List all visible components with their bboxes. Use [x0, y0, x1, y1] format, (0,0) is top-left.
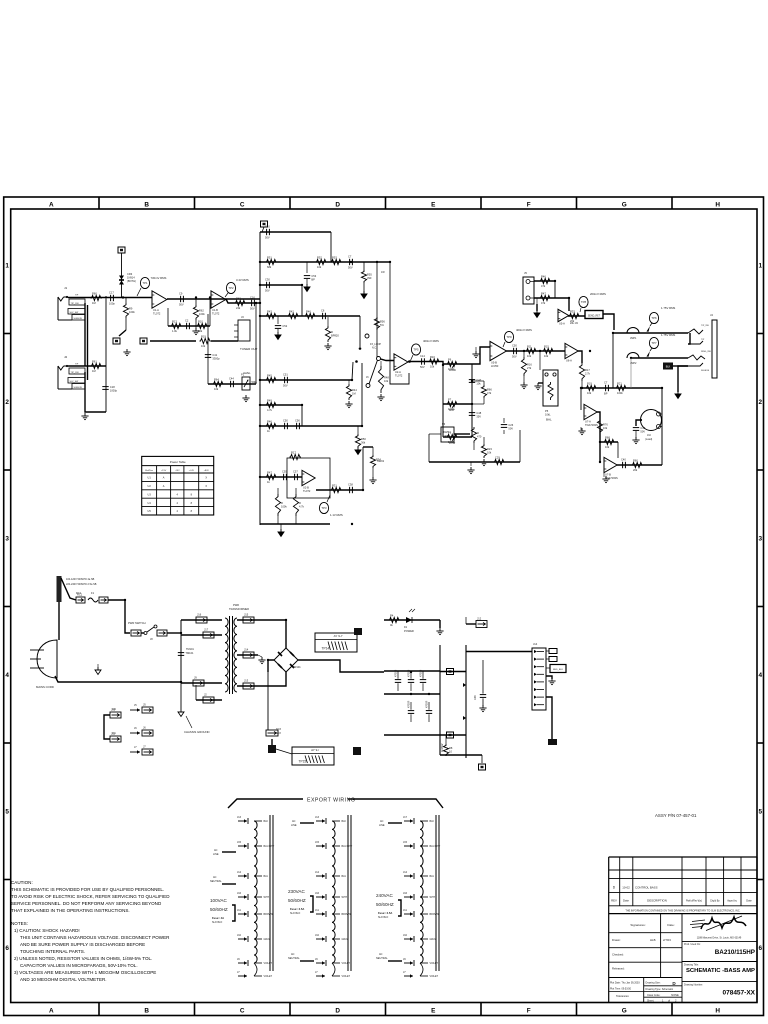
svg-text:J6: J6	[143, 726, 146, 730]
svg-text:U6: U6	[442, 423, 446, 426]
svg-text:J11: J11	[403, 909, 407, 912]
svg-text:VIOLET: VIOLET	[430, 962, 439, 965]
svg-text:J2: J2	[64, 355, 68, 359]
svg-text:CONTROL BASS: CONTROL BASS	[635, 885, 658, 889]
svg-text:VIOLET: VIOLET	[264, 975, 273, 978]
svg-text:TM101: TM101	[185, 651, 194, 655]
svg-text:1000p: 1000p	[110, 388, 118, 392]
svg-text:TP3: TP3	[321, 506, 327, 510]
svg-text:J10: J10	[647, 434, 652, 437]
svg-text:A: A	[49, 202, 54, 209]
svg-text:LINE: LINE	[213, 853, 219, 856]
svg-text:4: 4	[759, 672, 763, 679]
svg-text:R44: R44	[352, 388, 357, 392]
svg-text:LF353: LF353	[491, 364, 499, 368]
svg-text:J11: J11	[315, 909, 319, 912]
svg-text:THIS UNIT CONTAINS HAZARDOUS V: THIS UNIT CONTAINS HAZARDOUS VOLTAGE. DI…	[20, 935, 170, 940]
svg-text:4N25: 4N25	[443, 431, 449, 434]
svg-text:R62: R62	[236, 296, 241, 300]
svg-text:AC: AC	[379, 953, 383, 956]
svg-text:J7: J7	[134, 746, 137, 749]
svg-text:SEND_RET: SEND_RET	[588, 315, 601, 317]
svg-text:4: 4	[177, 510, 179, 513]
svg-text:J9: J9	[403, 958, 406, 961]
svg-text:J14: J14	[237, 871, 242, 874]
svg-text:R9: R9	[129, 307, 133, 311]
svg-text:100k: 100k	[199, 312, 205, 316]
svg-text:P7: P7	[448, 397, 452, 401]
svg-text:J7: J7	[403, 971, 406, 974]
svg-text:E: E	[431, 202, 436, 209]
svg-text:G: G	[622, 1008, 627, 1015]
svg-text:10: 10	[449, 750, 452, 754]
svg-text:50V: 50V	[283, 384, 288, 388]
svg-text:R10: R10	[198, 319, 203, 323]
svg-text:Chg'd By: Chg'd By	[710, 900, 720, 903]
svg-text:50/60HZ: 50/60HZ	[288, 898, 306, 903]
svg-text:VIOLET: VIOLET	[342, 975, 351, 978]
svg-text:H: H	[715, 1008, 720, 1015]
svg-text:C30: C30	[265, 277, 270, 281]
svg-text:1: 1	[759, 262, 763, 269]
svg-text:E: E	[431, 1008, 436, 1015]
svg-text:PWR: PWR	[233, 603, 239, 607]
svg-text:J10: J10	[403, 934, 408, 937]
svg-text:R45: R45	[267, 373, 272, 377]
svg-text:1) CAUTION: SHOCK HAZARD!: 1) CAUTION: SHOCK HAZARD!	[14, 928, 80, 933]
svg-text:POWER: POWER	[404, 629, 414, 633]
svg-text:J15: J15	[237, 841, 242, 844]
svg-text:X: X	[205, 477, 207, 480]
svg-text:10k: 10k	[476, 381, 481, 385]
svg-text:BLK: BLK	[666, 366, 671, 369]
svg-text:LINE: LINE	[379, 824, 385, 827]
svg-text:Class Code:: Class Code:	[647, 994, 661, 997]
svg-text:A: A	[163, 477, 165, 480]
svg-text:50V: 50V	[179, 303, 184, 307]
svg-text:TOUCHING INTERNAL PARTS.: TOUCHING INTERNAL PARTS.	[20, 949, 85, 954]
svg-text:TIP_SW: TIP_SW	[71, 303, 80, 305]
svg-text:4.7k: 4.7k	[299, 505, 305, 509]
svg-text:3) VOLTAGES ARE MEASURED WITH: 3) VOLTAGES ARE MEASURED WITH 1 MEGOHM O…	[14, 970, 156, 975]
svg-text:-15V: -15V	[175, 470, 180, 472]
svg-text:J17: J17	[204, 628, 209, 632]
svg-text:F: F	[527, 202, 531, 209]
svg-text:CHASSIS GROUND: CHASSIS GROUND	[184, 730, 210, 734]
svg-text:470: 470	[477, 435, 482, 439]
svg-text:10R5W: 10R5W	[441, 743, 444, 752]
svg-text:R19: R19	[587, 381, 592, 385]
svg-text:4: 4	[5, 672, 9, 679]
svg-text:5: 5	[759, 808, 763, 815]
svg-text:C53: C53	[311, 274, 316, 278]
svg-text:R15: R15	[544, 344, 549, 348]
svg-text:C50: C50	[512, 343, 517, 347]
svg-text:Power Table: Power Table	[170, 460, 186, 464]
svg-text:6: 6	[5, 945, 9, 952]
svg-text:TP2: TP2	[228, 286, 234, 290]
svg-text:J7: J7	[315, 971, 318, 974]
svg-text:C10: C10	[265, 224, 270, 228]
svg-text:50V: 50V	[250, 307, 255, 311]
svg-text:C17: C17	[109, 290, 114, 294]
svg-text:D: D	[613, 886, 616, 890]
svg-text:NOTES:: NOTES:	[11, 921, 28, 926]
svg-text:R17: R17	[585, 368, 590, 372]
svg-text:NEUTRAL: NEUTRAL	[376, 957, 388, 960]
svg-text:C18: C18	[110, 385, 115, 389]
svg-text:TM101: TM101	[186, 648, 194, 651]
svg-text:U1: U1	[148, 477, 152, 480]
svg-text:RED_BLK: RED_BLK	[553, 669, 564, 671]
svg-text:C46: C46	[474, 695, 477, 700]
svg-text:Drawing Type: Schematic: Drawing Type: Schematic	[646, 988, 674, 991]
svg-text:3300p: 3300p	[212, 356, 220, 360]
svg-text:1.75V RMS: 1.75V RMS	[661, 333, 675, 337]
svg-text:Drawn:: Drawn:	[612, 938, 621, 942]
svg-text:J6: J6	[366, 376, 369, 379]
svg-text:HIGH: HIGH	[449, 368, 456, 372]
svg-text:CR3: CR3	[127, 272, 133, 276]
svg-text:10kL: 10kL	[545, 412, 551, 416]
svg-text:C30: C30	[640, 426, 645, 430]
svg-text:SLEEVE: SLEEVE	[701, 370, 710, 372]
svg-text:J14: J14	[244, 648, 249, 652]
svg-text:J11: J11	[112, 732, 116, 735]
svg-text:A: A	[163, 485, 165, 488]
svg-text:+/-4V: +/-4V	[189, 470, 195, 472]
svg-text:J5: J5	[524, 271, 527, 275]
svg-text:VIOLET: VIOLET	[264, 962, 273, 965]
svg-text:5: 5	[5, 808, 9, 815]
svg-text:BP820: BP820	[331, 334, 339, 338]
svg-text:50V: 50V	[420, 365, 425, 369]
svg-text:50kL: 50kL	[252, 380, 258, 384]
svg-text:TRANSFORMER: TRANSFORMER	[229, 607, 249, 611]
svg-text:THE INFORMATION CONTAINED ON T: THE INFORMATION CONTAINED ON THIS DRAWIN…	[625, 910, 740, 913]
svg-text:J11: J11	[237, 909, 241, 912]
svg-text:SLV_SW: SLV_SW	[70, 381, 80, 383]
svg-text:R: R	[299, 501, 301, 505]
svg-text:C44: C44	[229, 376, 234, 380]
svg-text:SLO BLO: SLO BLO	[290, 912, 300, 915]
svg-text:Checked:: Checked:	[612, 953, 624, 957]
svg-text:J14: J14	[315, 871, 320, 874]
svg-text:240VAC: 240VAC	[376, 893, 393, 898]
svg-text:R: R	[331, 330, 333, 334]
svg-text:C: C	[240, 202, 245, 209]
svg-text:R43: R43	[267, 309, 272, 313]
svg-text:C55: C55	[282, 469, 287, 473]
svg-text:47k: 47k	[487, 391, 492, 395]
svg-text:AND BE SURE POWER SUPPLY IS DI: AND BE SURE POWER SUPPLY IS DISCHARGED B…	[20, 942, 145, 947]
svg-text:SCHEMATIC -BASS AMP: SCHEMATIC -BASS AMP	[686, 968, 755, 974]
svg-text:10k: 10k	[605, 445, 610, 449]
svg-text:F1: F1	[91, 591, 95, 595]
svg-text:2: 2	[5, 399, 9, 406]
svg-text:R17: R17	[291, 450, 296, 454]
svg-text:6: 6	[759, 945, 763, 952]
svg-text:100k: 100k	[129, 310, 135, 314]
svg-text:R60: R60	[633, 458, 638, 462]
svg-text:R53: R53	[332, 255, 337, 259]
svg-text:TL072: TL072	[153, 311, 161, 315]
svg-text:27k: 27k	[527, 366, 532, 370]
svg-text:1M: 1M	[92, 369, 96, 373]
svg-text:1k: 1k	[267, 480, 270, 484]
svg-text:3.4V RMS: 3.4V RMS	[236, 278, 249, 282]
svg-text:J16: J16	[197, 613, 202, 617]
svg-text:Signatures:: Signatures:	[630, 923, 645, 927]
svg-text:AY 9-7: AY 9-7	[334, 634, 343, 638]
svg-text:R51: R51	[267, 255, 272, 259]
svg-text:NEUTRAL: NEUTRAL	[288, 957, 300, 960]
svg-text:J5: J5	[134, 704, 137, 707]
svg-text:J2: J2	[204, 693, 207, 697]
svg-text:R23: R23	[487, 447, 492, 451]
svg-text:2: 2	[759, 399, 763, 406]
svg-text:NONE: NONE	[671, 993, 679, 997]
svg-text:10k: 10k	[201, 344, 206, 348]
svg-text:R47: R47	[267, 470, 272, 474]
svg-text:J14: J14	[403, 871, 408, 874]
svg-text:C52: C52	[282, 324, 287, 328]
svg-text:R46: R46	[267, 419, 272, 423]
svg-text:Date: Date	[746, 899, 752, 903]
svg-text:U5: U5	[148, 510, 152, 513]
svg-text:Drawing Size:: Drawing Size:	[646, 982, 661, 985]
svg-text:200mV RMS: 200mV RMS	[590, 292, 606, 296]
svg-text:AC: AC	[291, 953, 295, 956]
svg-text:JMP1: JMP1	[630, 337, 637, 340]
svg-text:BP: BP	[604, 392, 608, 396]
svg-text:C7: C7	[604, 380, 608, 384]
svg-text:1M: 1M	[92, 301, 96, 305]
svg-text:ACX: ACX	[276, 732, 281, 735]
svg-text:AC: AC	[213, 876, 217, 879]
svg-text:WHT: WHT	[264, 896, 270, 899]
svg-text:R19: R19	[201, 334, 206, 338]
svg-text:(Load): (Load)	[645, 438, 652, 441]
svg-text:G: G	[622, 202, 627, 209]
svg-text:WHT: WHT	[342, 896, 348, 899]
svg-text:Sheet:: Sheet:	[647, 999, 654, 1002]
svg-text:J7: J7	[237, 971, 240, 974]
svg-text:RC1: RC1	[76, 591, 82, 595]
svg-text:1.0k: 1.0k	[172, 329, 178, 333]
svg-text:BLU: BLU	[430, 875, 435, 878]
svg-text:R46: R46	[541, 274, 546, 278]
svg-text:C6: C6	[321, 308, 325, 312]
svg-text:BLU: BLU	[342, 875, 347, 878]
svg-text:D1: D1	[404, 626, 408, 629]
svg-text:U3: U3	[148, 493, 152, 496]
svg-text:TP9: TP9	[506, 335, 512, 339]
svg-text:(BOTH): (BOTH)	[127, 279, 136, 283]
svg-text:U2: U2	[148, 485, 152, 488]
svg-text:Prod. Used On:: Prod. Used On:	[684, 943, 701, 946]
svg-text:MAINS CORD: MAINS CORD	[36, 685, 54, 689]
svg-text:4700R: 4700R	[420, 669, 423, 677]
svg-text:J17: J17	[403, 816, 408, 819]
svg-text:D: D	[672, 981, 676, 986]
svg-text:R55: R55	[367, 273, 372, 277]
svg-text:100-120V 50/60Hz 4a SB: 100-120V 50/60Hz 4a SB	[66, 578, 95, 581]
svg-text:35V: 35V	[476, 414, 481, 418]
svg-text:R76: R76	[603, 423, 608, 427]
svg-text:C29: C29	[495, 455, 500, 459]
svg-text:J1: J1	[64, 286, 68, 290]
svg-text:400mV RMS: 400mV RMS	[516, 328, 532, 332]
svg-text:4k: 4k	[390, 623, 393, 627]
svg-text:TL072: TL072	[395, 373, 403, 377]
svg-text:C9: C9	[179, 291, 183, 295]
svg-text:THIS SCHEMATIC IS PROVIDED FOR: THIS SCHEMATIC IS PROVIDED FOR USE BY QU…	[11, 887, 164, 892]
svg-text:LEVEL: LEVEL	[243, 372, 251, 375]
svg-text:HLB: HLB	[650, 938, 656, 942]
svg-text:50V: 50V	[265, 236, 270, 240]
svg-text:X: X	[205, 485, 207, 488]
svg-text:VIOLET: VIOLET	[342, 962, 351, 965]
svg-text:47k: 47k	[541, 284, 546, 288]
svg-text:5%: 5%	[380, 323, 384, 327]
svg-text:AC: AC	[214, 849, 218, 852]
svg-text:J10: J10	[112, 708, 117, 711]
svg-text:50V: 50V	[640, 429, 645, 433]
svg-text:8: 8	[191, 510, 193, 513]
svg-text:10k: 10k	[198, 329, 203, 333]
svg-text:50/60HZ: 50/60HZ	[210, 907, 228, 912]
svg-text:390: 390	[367, 276, 372, 280]
svg-text:BR101: BR101	[293, 666, 301, 669]
svg-text:of: of	[668, 999, 670, 1002]
svg-text:J15: J15	[403, 841, 408, 844]
svg-text:B: B	[144, 202, 149, 209]
svg-text:R33: R33	[570, 309, 575, 313]
svg-text:Drawing Number:: Drawing Number:	[684, 983, 703, 986]
svg-text:J14: J14	[533, 642, 538, 646]
svg-text:R64: R64	[214, 377, 219, 381]
svg-text:4: 4	[177, 493, 179, 496]
svg-text:C16: C16	[250, 295, 255, 299]
svg-text:BROWN: BROWN	[430, 913, 439, 916]
svg-text:U5-A: U5-A	[559, 322, 565, 326]
svg-text:BLK: BLK	[430, 820, 435, 823]
svg-text:54R02: 54R02	[377, 460, 385, 463]
svg-text:BROWN: BROWN	[342, 913, 351, 916]
svg-text:N.C.: N.C.	[372, 346, 377, 349]
svg-text:50V: 50V	[265, 289, 270, 293]
svg-text:J15: J15	[244, 613, 249, 617]
svg-text:BP: BP	[311, 277, 315, 281]
svg-text:TL072: TL072	[212, 311, 220, 315]
svg-text:TIP_SW: TIP_SW	[701, 325, 709, 327]
svg-text:TP14: TP14	[322, 647, 330, 651]
svg-text:4: 4	[177, 502, 179, 505]
svg-text:U4: U4	[148, 502, 152, 505]
svg-text:TP15: TP15	[299, 760, 307, 764]
svg-text:J8: J8	[150, 638, 153, 641]
svg-text:Released:: Released:	[612, 967, 625, 971]
svg-text:BLU: BLU	[264, 875, 269, 878]
svg-text:C50: C50	[283, 418, 288, 422]
svg-text:C38: C38	[348, 482, 353, 486]
svg-text:TP7: TP7	[651, 341, 657, 345]
svg-text:J12: J12	[477, 617, 482, 621]
svg-text:P5: P5	[545, 409, 549, 413]
svg-text:+15V: +15V	[161, 470, 167, 472]
svg-text:BLK: BLK	[342, 820, 347, 823]
svg-text:+80V: +80V	[204, 470, 210, 472]
svg-text:SERVICE PERSONNEL. DO NOT PER: SERVICE PERSONNEL. DO NOT PERFORM ANY SE…	[11, 901, 162, 906]
svg-text:D: D	[335, 1008, 340, 1015]
svg-text:J10: J10	[237, 934, 242, 937]
svg-text:BAL: BAL	[546, 418, 552, 422]
svg-text:1k: 1k	[267, 429, 270, 433]
svg-text:10k: 10k	[214, 387, 219, 391]
svg-text:Ref/Des: Ref/Des	[145, 470, 154, 472]
svg-text:36k: 36k	[361, 441, 366, 445]
svg-text:C41: C41	[212, 353, 217, 357]
svg-text:R10: R10	[430, 355, 435, 359]
svg-text:C26: C26	[508, 423, 513, 427]
svg-text:C: C	[240, 1008, 245, 1015]
svg-text:R: R	[477, 431, 479, 435]
svg-text:TL072: TL072	[303, 489, 311, 493]
svg-text:CAUTION:: CAUTION:	[11, 880, 33, 885]
svg-text:TIP: TIP	[75, 364, 79, 366]
svg-text:J16: J16	[315, 892, 320, 895]
svg-text:230VAC: 230VAC	[288, 889, 305, 894]
svg-text:R13: R13	[172, 319, 177, 323]
svg-text:TUNER OUT: TUNER OUT	[240, 347, 258, 351]
svg-text:078457-XX: 078457-XX	[722, 990, 755, 997]
svg-text:VIOLET: VIOLET	[430, 975, 439, 978]
svg-text:D: D	[335, 202, 340, 209]
svg-text:100VAC: 100VAC	[210, 898, 227, 903]
svg-text:AC: AC	[380, 820, 384, 823]
svg-text:SLEEVE: SLEEVE	[74, 318, 83, 320]
svg-text:J16: J16	[237, 892, 242, 895]
svg-text:GRAY: GRAY	[342, 938, 349, 941]
svg-text:J13: J13	[244, 679, 249, 683]
svg-text:TP6: TP6	[651, 316, 657, 320]
svg-text:TP1: TP1	[142, 281, 148, 285]
svg-text:10k: 10k	[587, 391, 592, 395]
svg-text:BROWN: BROWN	[264, 913, 273, 916]
svg-text:SLEEVE: SLEEVE	[74, 387, 83, 389]
svg-text:R62: R62	[199, 309, 204, 313]
svg-text:10k: 10k	[430, 364, 435, 368]
svg-text:Fuse= 2.5A: Fuse= 2.5A	[290, 907, 304, 911]
svg-text:TO AVOID RISK OF ELECTRIC SHOC: TO AVOID RISK OF ELECTRIC SHOCK, REFER S…	[11, 894, 170, 899]
svg-text:Apprd by: Apprd by	[727, 900, 737, 903]
svg-text:GRAY: GRAY	[430, 938, 437, 941]
svg-text:50V: 50V	[348, 266, 353, 270]
svg-text:RING_SW: RING_SW	[701, 351, 711, 353]
svg-text:Date: Date	[623, 899, 629, 903]
svg-text:1W: 1W	[381, 271, 385, 274]
svg-text:3: 3	[5, 535, 9, 542]
svg-text:C47: C47	[476, 378, 481, 382]
svg-text:R52: R52	[317, 255, 322, 259]
svg-text:J9: J9	[194, 676, 197, 680]
svg-text:Tolerances:: Tolerances:	[616, 994, 630, 998]
svg-text:10k: 10k	[317, 265, 322, 269]
svg-text:4.7k: 4.7k	[267, 408, 273, 412]
svg-text:C2: C2	[185, 318, 189, 322]
svg-text:4700R: 4700R	[408, 669, 411, 677]
